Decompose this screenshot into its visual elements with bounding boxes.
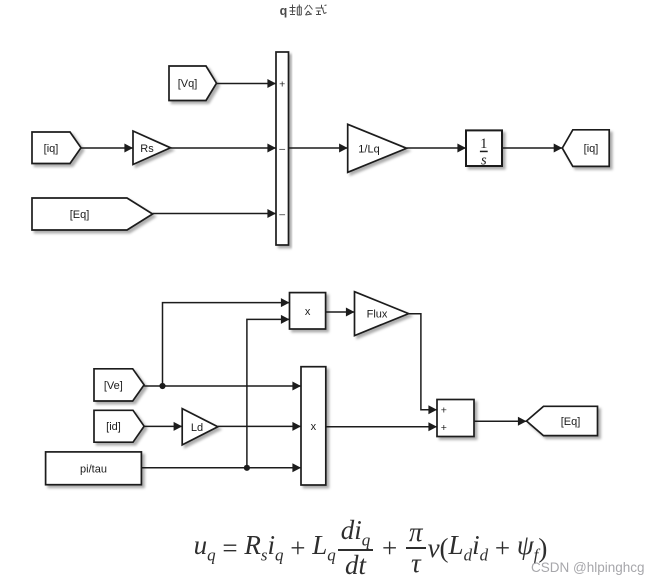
svg-text:1/Lq: 1/Lq	[358, 143, 379, 155]
wire Flux to Add	[409, 314, 437, 415]
From tag [id]	[94, 410, 144, 442]
From tag [Vq]	[169, 66, 217, 101]
wire 1/Lq to Integrator	[407, 144, 466, 153]
product Product1 (x)	[290, 293, 326, 329]
wire Add to [Eq] Goto	[474, 417, 527, 426]
svg-text:[Eq]: [Eq]	[70, 209, 90, 221]
svg-text:1: 1	[480, 136, 487, 152]
wire Ld to Product2	[218, 422, 301, 431]
svg-text:pi/tau: pi/tau	[80, 463, 107, 475]
svg-text:+: +	[279, 79, 285, 91]
sum block Sum1 (+ &#8722; &#8722;)	[276, 52, 289, 245]
svg-text:[iq]: [iq]	[584, 143, 599, 155]
wire Sum to 1/Lq	[289, 144, 348, 153]
svg-text:Ld: Ld	[191, 422, 203, 434]
svg-text:q: q	[280, 4, 288, 18]
integrator 1/s	[466, 130, 502, 168]
wire Integrator to [iq] Goto	[502, 144, 562, 153]
sum block Add (+ +)	[437, 400, 474, 437]
gain Rs	[133, 131, 171, 165]
svg-text:s: s	[481, 152, 487, 168]
product Product2 (x)	[301, 367, 326, 485]
wire Product2 to Add	[326, 422, 437, 431]
wire branch pi/tau up to Product1	[247, 315, 290, 468]
gain Flux	[355, 292, 409, 336]
svg-text:[Ve]: [Ve]	[104, 380, 123, 392]
svg-text:Flux: Flux	[367, 309, 388, 321]
svg-text:[id]: [id]	[106, 421, 121, 433]
constant pi/tau	[46, 452, 142, 485]
wire [iq] to Rs	[81, 144, 133, 153]
title text "q&#36712;&#20844;&#24335;"	[280, 4, 327, 18]
watermark CSDN @hlpinghcg	[531, 560, 645, 575]
Goto tag [Eq] out	[527, 406, 598, 435]
wire Product1 to Flux	[326, 308, 355, 317]
wire [id] to Ld	[144, 422, 182, 431]
From tag [iq]	[32, 132, 81, 164]
gain Ld	[182, 409, 218, 445]
svg-text:[iq]: [iq]	[44, 143, 59, 155]
From tag [Eq]	[32, 198, 153, 230]
svg-text:[Vq]: [Vq]	[178, 78, 198, 90]
svg-text:[Eq]: [Eq]	[561, 416, 581, 428]
svg-text:–: –	[279, 143, 285, 155]
wire branch [Ve] up to Product1	[163, 298, 290, 386]
svg-text:x: x	[311, 421, 317, 433]
From tag [Ve]	[94, 369, 144, 401]
svg-text:+: +	[441, 422, 447, 434]
junction on [Ve] wire	[159, 383, 165, 389]
Goto tag [iq] out	[562, 130, 609, 167]
junction on pi/tau wire	[244, 465, 250, 471]
wire Rs to Sum	[171, 144, 277, 153]
wire [Ve] to Product2	[144, 382, 301, 391]
svg-text:+: +	[441, 405, 447, 417]
wire [Eq] to Sum	[153, 209, 276, 218]
formula u_q = R_s i_q + L_q di_q/dt + pi/tau v (L_d i_d + psi_f)	[38, 522, 665, 574]
gain 1/Lq	[348, 124, 407, 172]
svg-text:x: x	[305, 306, 311, 318]
wire pi/tau to Product2	[141, 463, 301, 472]
svg-text:–: –	[279, 208, 285, 220]
wire [Vq] to Sum	[217, 79, 277, 88]
svg-text:Rs: Rs	[140, 143, 154, 155]
